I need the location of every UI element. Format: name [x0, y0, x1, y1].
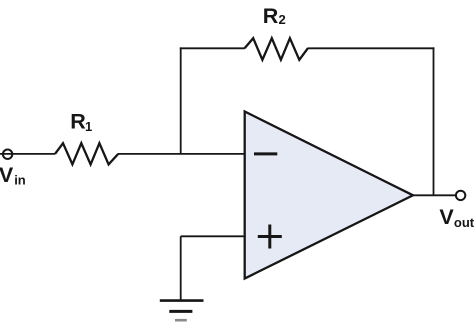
- svg-text:R: R: [263, 4, 279, 28]
- wire input to R1: [0, 153, 55, 155]
- wire to non-inverting input: [181, 235, 246, 237]
- wire top left to R2: [180, 47, 245, 49]
- svg-text:1: 1: [85, 119, 92, 134]
- wire feedback right vertical: [433, 47, 435, 195]
- label R2: [263, 4, 286, 28]
- op-amp U1 triangle: [245, 112, 413, 279]
- svg-text:in: in: [14, 172, 26, 187]
- svg-text:R: R: [70, 109, 86, 133]
- input terminal circle: [3, 150, 12, 159]
- resistor R1: [55, 143, 118, 164]
- resistor R2: [245, 38, 308, 60]
- ground: [160, 301, 204, 321]
- non-inverting input plus sign: [258, 225, 282, 249]
- svg-text:2: 2: [279, 12, 286, 27]
- inverting input minus sign: [254, 152, 277, 155]
- svg-text:V: V: [439, 205, 454, 229]
- wire R2 to right vertical: [308, 47, 435, 49]
- node Vin label: [0, 163, 26, 188]
- output terminal circle: [456, 191, 465, 200]
- label R1: [70, 109, 92, 134]
- wire R1 to op-amp inverting input: [118, 153, 246, 155]
- wire feedback left vertical: [180, 47, 182, 153]
- node Vout label: [439, 205, 474, 230]
- wire ground vertical: [180, 236, 182, 300]
- svg-text:V: V: [0, 163, 14, 187]
- wire output: [413, 194, 456, 196]
- svg-text:out: out: [454, 215, 474, 230]
